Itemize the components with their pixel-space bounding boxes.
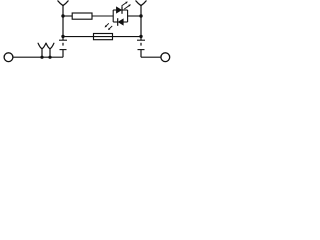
- wire: LED pair left branch connector: [112, 10, 114, 22]
- LED D1 emission arrows: [122, 2, 131, 9]
- wire: TP2 stem down to node B: [140, 6, 142, 16]
- resistor R1: [72, 13, 92, 19]
- lever link (right, dashed): [140, 43, 142, 46]
- wire: LED pair right branch connector: [127, 10, 129, 22]
- node B (junction 141,16): [139, 14, 142, 17]
- wire: LED pair to node B: [128, 15, 141, 17]
- wire: node A down to node C: [62, 16, 64, 36]
- disconnect lever contact (right upper): [137, 36, 145, 40]
- LED D2 (lower, anode right): [118, 18, 128, 26]
- node D (junction 141,37): [139, 35, 142, 38]
- wire: TP1 stem down to node A: [62, 6, 64, 16]
- disconnect lever contact (left upper): [59, 36, 67, 40]
- wire: fuse F1 to node D: [113, 36, 142, 38]
- LED D1 (upper, anode left): [116, 6, 127, 14]
- disconnect lever contact (right lower): [138, 50, 145, 58]
- wire: node C to fuse F1: [63, 36, 94, 38]
- disconnect lever contact (left lower): [60, 50, 67, 58]
- terminal X1 (left screw connection): [4, 53, 13, 62]
- wire: lever to terminal X2 (bottom right rail): [141, 56, 161, 58]
- test tap TP4 (bottom, right Y): [46, 43, 54, 57]
- test socket TP2 (top right): [136, 1, 146, 6]
- wire: bottom branch left segment: [113, 21, 118, 23]
- node A (junction 63,16): [61, 14, 64, 17]
- test tap TP3 (bottom, left Y): [38, 43, 46, 57]
- node C (junction 63,37): [61, 35, 64, 38]
- wire: resistor R1 to LED pair: [92, 15, 113, 17]
- test socket TP1 (top left): [58, 1, 68, 6]
- wire: node B down to node D: [140, 16, 142, 36]
- wire: top branch to LED D1: [113, 9, 116, 11]
- wire: terminal X1 to lever (bottom left rail): [13, 56, 63, 58]
- wire: node A to resistor R1: [63, 15, 72, 17]
- node E (junction 42,57.2): [40, 56, 43, 59]
- fuse F1: [94, 34, 113, 40]
- node F (junction 50,57.2): [48, 56, 51, 59]
- LED D2 emission arrows: [105, 23, 113, 30]
- terminal X2 (right screw connection): [161, 53, 170, 62]
- lever link (left, dashed): [62, 43, 64, 46]
